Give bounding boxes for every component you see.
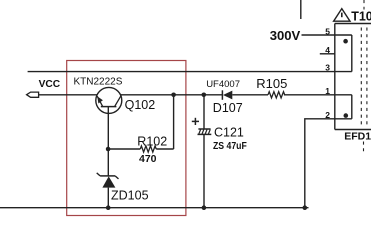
wire stub top (cropped): [300, 0, 302, 19]
svg-text:ZS 47uF: ZS 47uF: [213, 141, 247, 152]
polarity dot secondary: [344, 113, 349, 118]
label + polarity: [192, 120, 199, 122]
svg-text:C121: C121: [214, 125, 244, 139]
svg-text:KTN2222S: KTN2222S: [74, 76, 123, 87]
svg-text:ZD105: ZD105: [111, 188, 149, 202]
capacitor C121: [198, 95, 212, 208]
svg-text:470: 470: [139, 153, 157, 165]
junction ZD105 anode on bottom rail: [106, 205, 111, 210]
svg-text:R105: R105: [256, 76, 287, 91]
dashed stub below EFD15: [363, 142, 365, 154]
svg-text:1: 1: [325, 86, 330, 96]
zener diode ZD105: [97, 149, 119, 208]
wire transformer pin 2: [305, 119, 352, 208]
svg-text:VCC: VCC: [39, 79, 61, 90]
core dashed line left: [360, 28, 362, 129]
polarity dot primary: [343, 39, 348, 44]
junction C121 bottom on rail: [202, 205, 207, 210]
red highlight box around regulator section: [67, 61, 186, 216]
svg-text:D107: D107: [213, 101, 243, 115]
svg-text:EFD15: EFD15: [344, 131, 371, 143]
warning triangle symbol: [334, 9, 350, 22]
dashed stub above transformer: [363, 0, 365, 10]
wire Q102 base lead down: [107, 107, 109, 149]
svg-text:4: 4: [325, 45, 330, 55]
wire top rail to transformer pin 3: [28, 71, 352, 73]
svg-text:Q102: Q102: [125, 98, 156, 112]
junction node B (C121 top): [202, 93, 207, 98]
resistor R102: [108, 95, 174, 152]
svg-text:3: 3: [325, 63, 330, 73]
resistor R105: [268, 92, 352, 98]
wire bottom rail: [0, 207, 309, 209]
svg-text:5: 5: [325, 26, 330, 36]
diode D107: [222, 90, 268, 100]
transistor Q102: [96, 87, 122, 113]
svg-text:R102: R102: [137, 134, 167, 148]
transformer T101: [335, 24, 371, 130]
node VCC connector tag: [27, 92, 39, 97]
junction pin 2 wire on bottom rail: [303, 205, 308, 210]
wire Q102 collector to node A: [121, 94, 223, 96]
core dashed line right: [366, 28, 368, 129]
wire transformer pin 5: [302, 34, 352, 36]
wire VCC to Q102 emitter: [39, 94, 98, 96]
junction base node: [106, 147, 111, 152]
svg-text:300V: 300V: [270, 28, 301, 43]
junction node A (R102 top): [171, 93, 176, 98]
wire transformer pin 4 stub: [320, 53, 335, 55]
svg-text:UF4007: UF4007: [206, 79, 240, 90]
svg-text:T101: T101: [351, 10, 371, 24]
